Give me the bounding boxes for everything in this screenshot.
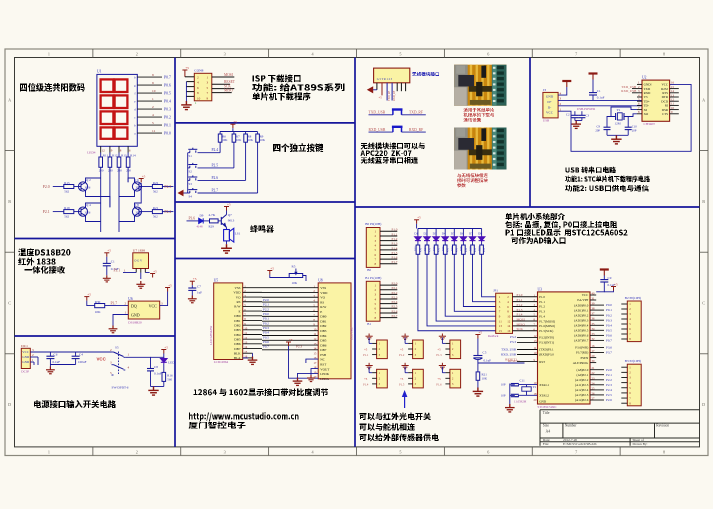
svg-text:Y1: Y1	[617, 108, 621, 112]
svg-text:VDD: VDD	[320, 291, 328, 295]
temp sensor U6	[128, 301, 159, 319]
section divider y258.5 mid	[175, 258, 355, 260]
ground power	[148, 387, 158, 396]
svg-text:14: 14	[507, 324, 511, 328]
svg-text:+5: +5	[400, 377, 404, 381]
wire TXD jumper right	[402, 114, 426, 116]
svg-text:10: 10	[152, 89, 156, 93]
connector J3 USB	[543, 92, 558, 118]
svg-text:(A12)P2.4: (A12)P2.4	[575, 388, 589, 392]
svg-text:P1.2: P1.2	[392, 237, 398, 241]
svg-text:P1.4: P1.4	[517, 313, 523, 317]
svg-text:P3.6: P3.6	[189, 217, 196, 221]
svg-text:1: 1	[152, 97, 154, 101]
svg-text:562: 562	[153, 215, 158, 219]
diode D9	[199, 218, 204, 223]
section divider y207 right	[355, 206, 700, 208]
svg-text:P0.6: P0.6	[606, 334, 612, 338]
ground xtal mcu	[505, 404, 515, 412]
diode LED power	[161, 357, 167, 364]
svg-text:3906: 3906	[85, 186, 91, 190]
svg-text:P2.2: P2.2	[606, 378, 612, 382]
svg-text:DB6: DB6	[234, 342, 241, 346]
svg-text:D: D	[702, 402, 705, 407]
svg-text:DB3: DB3	[320, 329, 327, 333]
wire DC1 outputs	[30, 348, 111, 365]
connector CON8	[194, 73, 212, 101]
svg-text:Revision: Revision	[656, 424, 669, 428]
svg-text:PSEN: PSEN	[581, 356, 589, 360]
svg-text:3: 3	[224, 450, 226, 455]
svg-text:16: 16	[507, 329, 511, 333]
section divider y336 left	[15, 335, 176, 337]
terminal block CZ2	[413, 340, 424, 359]
power +5 mcu	[611, 287, 616, 291]
svg-text:Drawn By:: Drawn By:	[633, 442, 648, 446]
svg-text:RESET: RESET	[224, 80, 236, 84]
svg-text:Size: Size	[543, 424, 550, 428]
svg-text:P1.5: P1.5	[399, 382, 405, 386]
svg-text:Q7: Q7	[228, 213, 232, 217]
svg-text:10P: 10P	[501, 393, 506, 397]
svg-text:E: E	[320, 310, 322, 314]
svg-text:562: 562	[64, 190, 69, 194]
svg-text:P3.1: P3.1	[114, 268, 121, 272]
svg-text:STC89C52RC: STC89C52RC	[538, 405, 558, 409]
svg-text:P2.4: P2.4	[392, 300, 398, 304]
svg-text:P1.4: P1.4	[363, 382, 369, 386]
svg-text:15: 15	[313, 351, 317, 355]
power +5 C1	[104, 253, 109, 257]
svg-text:MOSI: MOSI	[517, 317, 525, 321]
potentiometer R5	[289, 274, 303, 278]
svg-text:(A9)P2.1: (A9)P2.1	[577, 373, 589, 377]
svg-text:R18: R18	[460, 246, 463, 251]
svg-text:VSS: VSS	[234, 286, 240, 290]
svg-text:2: 2	[152, 105, 154, 109]
svg-text:P1.1: P1.1	[539, 300, 545, 304]
svg-text:O G V: O G V	[134, 259, 143, 263]
photo annotation red 1b	[464, 113, 495, 118]
svg-text:EA/VPP: EA/VPP	[577, 298, 588, 302]
svg-text:(AD2)P0.2: (AD2)P0.2	[574, 313, 588, 317]
svg-text:Q 4: Q 4	[86, 203, 91, 207]
svg-text:0.1uF: 0.1uF	[597, 96, 605, 100]
section title P1口接LED	[506, 229, 628, 236]
svg-text:470: 470	[465, 247, 468, 252]
wire caps gnd	[575, 120, 582, 122]
power +5 buzzer	[224, 207, 229, 211]
svg-text:P3.2: P3.2	[510, 335, 516, 339]
svg-text:P0.1: P0.1	[606, 308, 612, 312]
photo USB download board 2	[454, 128, 506, 170]
wire C1	[106, 257, 108, 264]
capacitor C12	[511, 384, 519, 386]
power +5 R5	[267, 271, 272, 275]
svg-text:+5: +5	[153, 269, 157, 273]
buzzer LS1	[224, 228, 234, 242]
photo USB download board 1	[454, 65, 506, 106]
section title 无线模块接口可以与	[361, 143, 425, 150]
svg-text:200: 200	[126, 169, 131, 173]
svg-text:P2.1: P2.1	[392, 286, 398, 290]
svg-text:P2.2: P2.2	[164, 210, 171, 214]
svg-text:P1.6: P1.6	[436, 382, 442, 386]
wire reset mid	[477, 360, 479, 372]
svg-text:S2: S2	[189, 169, 193, 173]
wire R5	[270, 275, 289, 278]
capacitor C3	[581, 111, 583, 115]
svg-text:P3.3: P3.3	[510, 340, 516, 344]
svg-text:P1.7: P1.7	[392, 260, 398, 264]
svg-text:P0.4: P0.4	[263, 331, 269, 335]
power bar VCC flag	[589, 74, 598, 80]
svg-text:P3.2(INT0): P3.2(INT0)	[539, 336, 554, 340]
section title USB 转串口电路	[566, 167, 617, 174]
ground crystal	[611, 135, 621, 144]
display common-anode pins	[101, 146, 131, 152]
terminal block CZ6	[450, 369, 461, 388]
svg-text:P1.2: P1.2	[517, 303, 523, 307]
svg-text:10K: 10K	[95, 310, 101, 314]
svg-text:RXD_RF: RXD_RF	[393, 90, 396, 101]
svg-text:BLA: BLA	[234, 356, 241, 360]
label blue arrow	[402, 390, 408, 397]
ground buzzer	[221, 244, 232, 253]
svg-text:DB5: DB5	[320, 339, 327, 343]
section title 包括	[505, 221, 617, 229]
svg-text:+5: +5	[227, 202, 231, 206]
svg-text:P0.4: P0.4	[606, 323, 612, 327]
svg-text:P2.3: P2.3	[606, 383, 612, 387]
wire U8 lower pins	[289, 346, 319, 378]
switches S1-S4	[188, 148, 198, 199]
svg-text:200: 200	[108, 169, 113, 173]
wire res-base	[218, 220, 221, 222]
svg-text:S5: S5	[115, 346, 119, 350]
svg-text:10K: 10K	[292, 281, 298, 285]
section title 单片机下载程序	[253, 93, 311, 101]
svg-text:(AD7)P0.7: (AD7)P0.7	[574, 339, 588, 343]
svg-text:E:\MCS51\sch\USB.ddb: E:\MCS51\sch\USB.ddb	[563, 442, 597, 446]
svg-text:U8: U8	[318, 278, 323, 282]
company name 厦门智控电子	[189, 422, 246, 429]
svg-text:3906: 3906	[85, 211, 91, 215]
ground U8b	[307, 375, 315, 382]
svg-text:C7: C7	[197, 284, 201, 288]
svg-text:S3: S3	[189, 182, 193, 186]
svg-text:D-: D-	[548, 105, 552, 109]
svg-text:B: B	[8, 199, 11, 204]
svg-text:200: 200	[99, 169, 104, 173]
svg-text:5: 5	[399, 450, 401, 455]
svg-text:LCD1602: LCD1602	[350, 327, 354, 340]
display segment pins and P0 net labels	[134, 73, 171, 135]
svg-text:SW-DPDT-6: SW-DPDT-6	[112, 385, 129, 389]
label 无线模块接口	[412, 72, 439, 76]
7-seg display U1 body	[97, 74, 137, 146]
svg-text:P0.2: P0.2	[606, 313, 612, 317]
svg-text:470: 470	[438, 247, 441, 252]
svg-text:13: 13	[499, 324, 503, 328]
svg-text:R5: R5	[292, 264, 296, 268]
svg-text:D9: D9	[200, 213, 204, 217]
svg-text:2: 2	[136, 450, 138, 455]
svg-text:(AD3)P0.3: (AD3)P0.3	[574, 318, 588, 322]
resistor R21 reset	[476, 372, 480, 380]
svg-text:A: A	[8, 97, 11, 102]
transistor Q7 9013	[221, 215, 226, 228]
resistor R16 power	[162, 372, 166, 381]
section title 一体化接收	[25, 266, 66, 274]
svg-text:DB2: DB2	[320, 324, 327, 328]
wire reset top	[477, 339, 479, 356]
ground U7	[136, 281, 145, 288]
svg-text:P2.2: P2.2	[263, 307, 269, 311]
svg-text:P3.7: P3.7	[606, 351, 612, 355]
svg-text:LS1: LS1	[235, 232, 241, 236]
chip U3 MCU	[538, 292, 591, 404]
svg-text:TXD_RF: TXD_RF	[409, 111, 423, 115]
resistors R13-R20 led	[415, 245, 496, 331]
ground C1	[103, 275, 111, 282]
svg-text:P1.1: P1.1	[517, 298, 523, 302]
svg-text:RXD_USB: RXD_USB	[369, 128, 386, 132]
photo annotation red 1a	[464, 108, 495, 113]
ground reset	[473, 388, 483, 397]
svg-text:DC1: DC1	[21, 344, 28, 348]
ground C6	[46, 367, 55, 374]
svg-text:VDD: VDD	[233, 291, 241, 295]
svg-text:CTS: CTS	[662, 112, 668, 116]
svg-text:(A10)P2.2: (A10)P2.2	[575, 378, 589, 382]
svg-text:0.1uF: 0.1uF	[154, 372, 162, 376]
svg-text:+5: +5	[164, 345, 168, 349]
svg-text:P0.7: P0.7	[606, 339, 612, 343]
svg-text:(AD0)P0.0: (AD0)P0.0	[574, 303, 588, 307]
svg-text:B1: B1	[367, 322, 371, 326]
svg-text:S1: S1	[189, 154, 193, 158]
diodes D1-D8 LED row	[414, 224, 484, 245]
svg-text:B0 P0(10H): B0 P0(10H)	[365, 222, 381, 226]
svg-text:A4: A4	[546, 430, 551, 434]
svg-text:LCD12864ZW: LCD12864ZW	[209, 326, 213, 345]
svg-text:10K: 10K	[236, 138, 242, 142]
wire LCD gnd1	[252, 353, 254, 356]
svg-text:Q 2: Q 2	[86, 178, 91, 182]
svg-text:470: 470	[419, 247, 422, 252]
svg-text:J3: J3	[543, 88, 546, 92]
svg-text:470: 470	[447, 247, 450, 252]
wire RXD jumper left	[369, 131, 393, 133]
ground U6	[109, 326, 118, 333]
svg-text:5: 5	[399, 52, 401, 57]
wire CON8 left pins	[185, 77, 194, 101]
svg-text:(AD5)P0.5: (AD5)P0.5	[574, 329, 588, 333]
power +5 display drivers	[139, 179, 144, 183]
wire xtal mcu	[510, 384, 538, 405]
svg-text:P1.6(MISO): P1.6(MISO)	[539, 324, 555, 328]
svg-text:R19: R19	[64, 206, 70, 210]
svg-text:R29: R29	[209, 224, 215, 228]
svg-text:P1.3: P1.3	[436, 353, 442, 357]
svg-text:P0.1: P0.1	[164, 123, 171, 127]
power bar GND flag	[562, 81, 571, 87]
svg-text:B2 P0(10H): B2 P0(10H)	[625, 296, 641, 300]
section title 12864 display	[194, 389, 329, 397]
section title 电源接口输入开关电路	[34, 400, 116, 408]
svg-text:File:: File:	[543, 442, 549, 446]
svg-text:1: 1	[195, 101, 197, 105]
svg-text:+5: +5	[437, 348, 441, 352]
svg-text:C2: C2	[566, 112, 570, 116]
segment current resistors R11-R14	[99, 153, 136, 178]
svg-text:R22: R22	[153, 181, 159, 185]
svg-text:TXD_RF: TXD_RF	[388, 90, 391, 101]
chip U2 CH340	[642, 80, 670, 121]
chip U2 pin wires	[632, 81, 679, 114]
svg-text:DB3: DB3	[234, 328, 241, 332]
wire transistor emitters	[86, 178, 142, 222]
svg-text:Number: Number	[565, 424, 578, 428]
svg-text:1: 1	[48, 52, 50, 57]
svg-text:10: 10	[507, 315, 511, 319]
svg-text:6: 6	[487, 52, 489, 57]
svg-text:C: C	[8, 301, 11, 306]
svg-text:CON8: CON8	[194, 69, 203, 73]
svg-text:P0.1: P0.1	[263, 317, 269, 321]
svg-text:XTAL1: XTAL1	[539, 383, 549, 387]
svg-text:E: E	[238, 309, 240, 313]
svg-text:10K: 10K	[248, 138, 254, 142]
photo annotation red 2b	[457, 178, 488, 183]
svg-text:U3: U3	[538, 287, 543, 291]
svg-text:P1.3: P1.3	[392, 242, 398, 246]
resistors R6-R9 10K	[218, 132, 265, 194]
svg-text:200: 200	[117, 169, 122, 173]
svg-text:R30: R30	[95, 300, 101, 304]
svg-text:+5: +5	[400, 348, 404, 352]
svg-text:R/W: R/W	[320, 305, 327, 309]
svg-text:VCC: VCC	[149, 304, 158, 309]
svg-text:C9: C9	[608, 276, 612, 280]
svg-text:P1.0: P1.0	[539, 295, 545, 299]
svg-text:(RXD)P3.0: (RXD)P3.0	[539, 353, 554, 357]
terminal block CZ1	[377, 340, 388, 359]
svg-text:P1.1: P1.1	[392, 232, 398, 236]
svg-text:P1.1: P1.1	[363, 353, 369, 357]
terminal block CZ4	[377, 369, 388, 388]
power +5 R30	[84, 297, 89, 301]
svg-text:B: B	[702, 199, 705, 204]
connector U8 LCD1602	[318, 283, 351, 379]
svg-text:17: 17	[313, 361, 317, 365]
svg-text:P0.3: P0.3	[164, 107, 171, 111]
jumper TXD	[392, 110, 403, 115]
svg-text:VCC: VCC	[546, 111, 554, 115]
photo annotation red 2a	[457, 173, 488, 178]
wire gnd rail	[151, 386, 164, 388]
svg-text:TXD_USB: TXD_USB	[369, 111, 386, 115]
svg-text:P2.5: P2.5	[606, 393, 612, 397]
svg-text:MISO: MISO	[517, 322, 526, 326]
svg-text:GND: GND	[539, 400, 547, 404]
svg-text:Y2: Y2	[533, 385, 537, 389]
section note 可以给外部传感器供电	[360, 434, 440, 442]
ground CON8	[181, 101, 191, 110]
svg-text:(AD6)P0.6: (AD6)P0.6	[574, 334, 588, 338]
svg-text:470: 470	[483, 247, 486, 252]
svg-text:6: 6	[487, 450, 489, 455]
svg-text:D7: D7	[469, 232, 473, 236]
svg-text:P2.4: P2.4	[212, 148, 219, 152]
chip U3 right pin wires	[590, 292, 612, 403]
svg-text:S4: S4	[189, 194, 193, 198]
zone reference ticks	[5, 49, 708, 456]
section divider y122.9 mid	[175, 122, 355, 124]
svg-text:3: 3	[224, 52, 226, 57]
svg-text:P0.0: P0.0	[263, 312, 269, 316]
svg-text:MOSI: MOSI	[224, 73, 234, 77]
wire key rows P2.4-P2.7	[198, 148, 258, 193]
power +5 out	[161, 350, 166, 354]
svg-text:11: 11	[152, 129, 156, 133]
svg-text:USB: USB	[543, 119, 549, 123]
resistor R29 4.7K	[210, 219, 219, 223]
svg-text:DB4: DB4	[234, 333, 241, 337]
connector U5 LCD12864	[214, 283, 243, 360]
svg-text:A: A	[702, 97, 705, 102]
svg-text:10: 10	[197, 96, 201, 100]
title block	[540, 410, 700, 446]
svg-text:+5: +5	[142, 174, 146, 178]
capacitor C2	[574, 111, 576, 115]
svg-text:P0.3: P0.3	[606, 318, 612, 322]
sheet outer border	[5, 49, 708, 456]
ground arrow wireless	[367, 86, 373, 93]
svg-text:P2.1: P2.1	[263, 303, 269, 307]
sheet inner border	[15, 58, 700, 447]
svg-text:+5: +5	[614, 282, 618, 286]
svg-text:P1.4: P1.4	[539, 314, 545, 318]
svg-text:B3 P2(10H): B3 P2(10H)	[625, 359, 641, 363]
svg-text:RS: RS	[320, 300, 324, 304]
svg-text:4148: 4148	[197, 224, 204, 228]
wire to gnd arrow	[370, 89, 377, 91]
photo annotation red 1c	[464, 118, 482, 122]
wire diode-res	[203, 220, 209, 222]
svg-text:P3.7: P3.7	[111, 301, 118, 305]
svg-text:U7 1838: U7 1838	[133, 248, 145, 252]
svg-text:RST: RST	[539, 360, 545, 364]
svg-text:P2.1: P2.1	[606, 373, 612, 377]
transistor Q8	[132, 205, 142, 218]
svg-text:U1: U1	[97, 70, 102, 74]
svg-text:D1: D1	[414, 232, 418, 236]
svg-text:(A13)P2.5: (A13)P2.5	[575, 393, 589, 397]
wire CON8 right pins MOSI RESET SCK MISO	[212, 73, 236, 93]
switch S5	[110, 346, 130, 390]
svg-text:U2: U2	[642, 75, 647, 79]
svg-text:P1.2: P1.2	[399, 353, 405, 357]
ground keys arrow	[178, 190, 184, 197]
svg-text:B1 P1(10H): B1 P1(10H)	[365, 276, 381, 280]
svg-text:C4: C4	[79, 352, 83, 356]
svg-text:VCC: VCC	[97, 357, 107, 362]
svg-text:+5: +5	[270, 266, 274, 270]
svg-text:D4: D4	[442, 232, 446, 236]
svg-text:(A8)P2.0: (A8)P2.0	[577, 368, 589, 372]
